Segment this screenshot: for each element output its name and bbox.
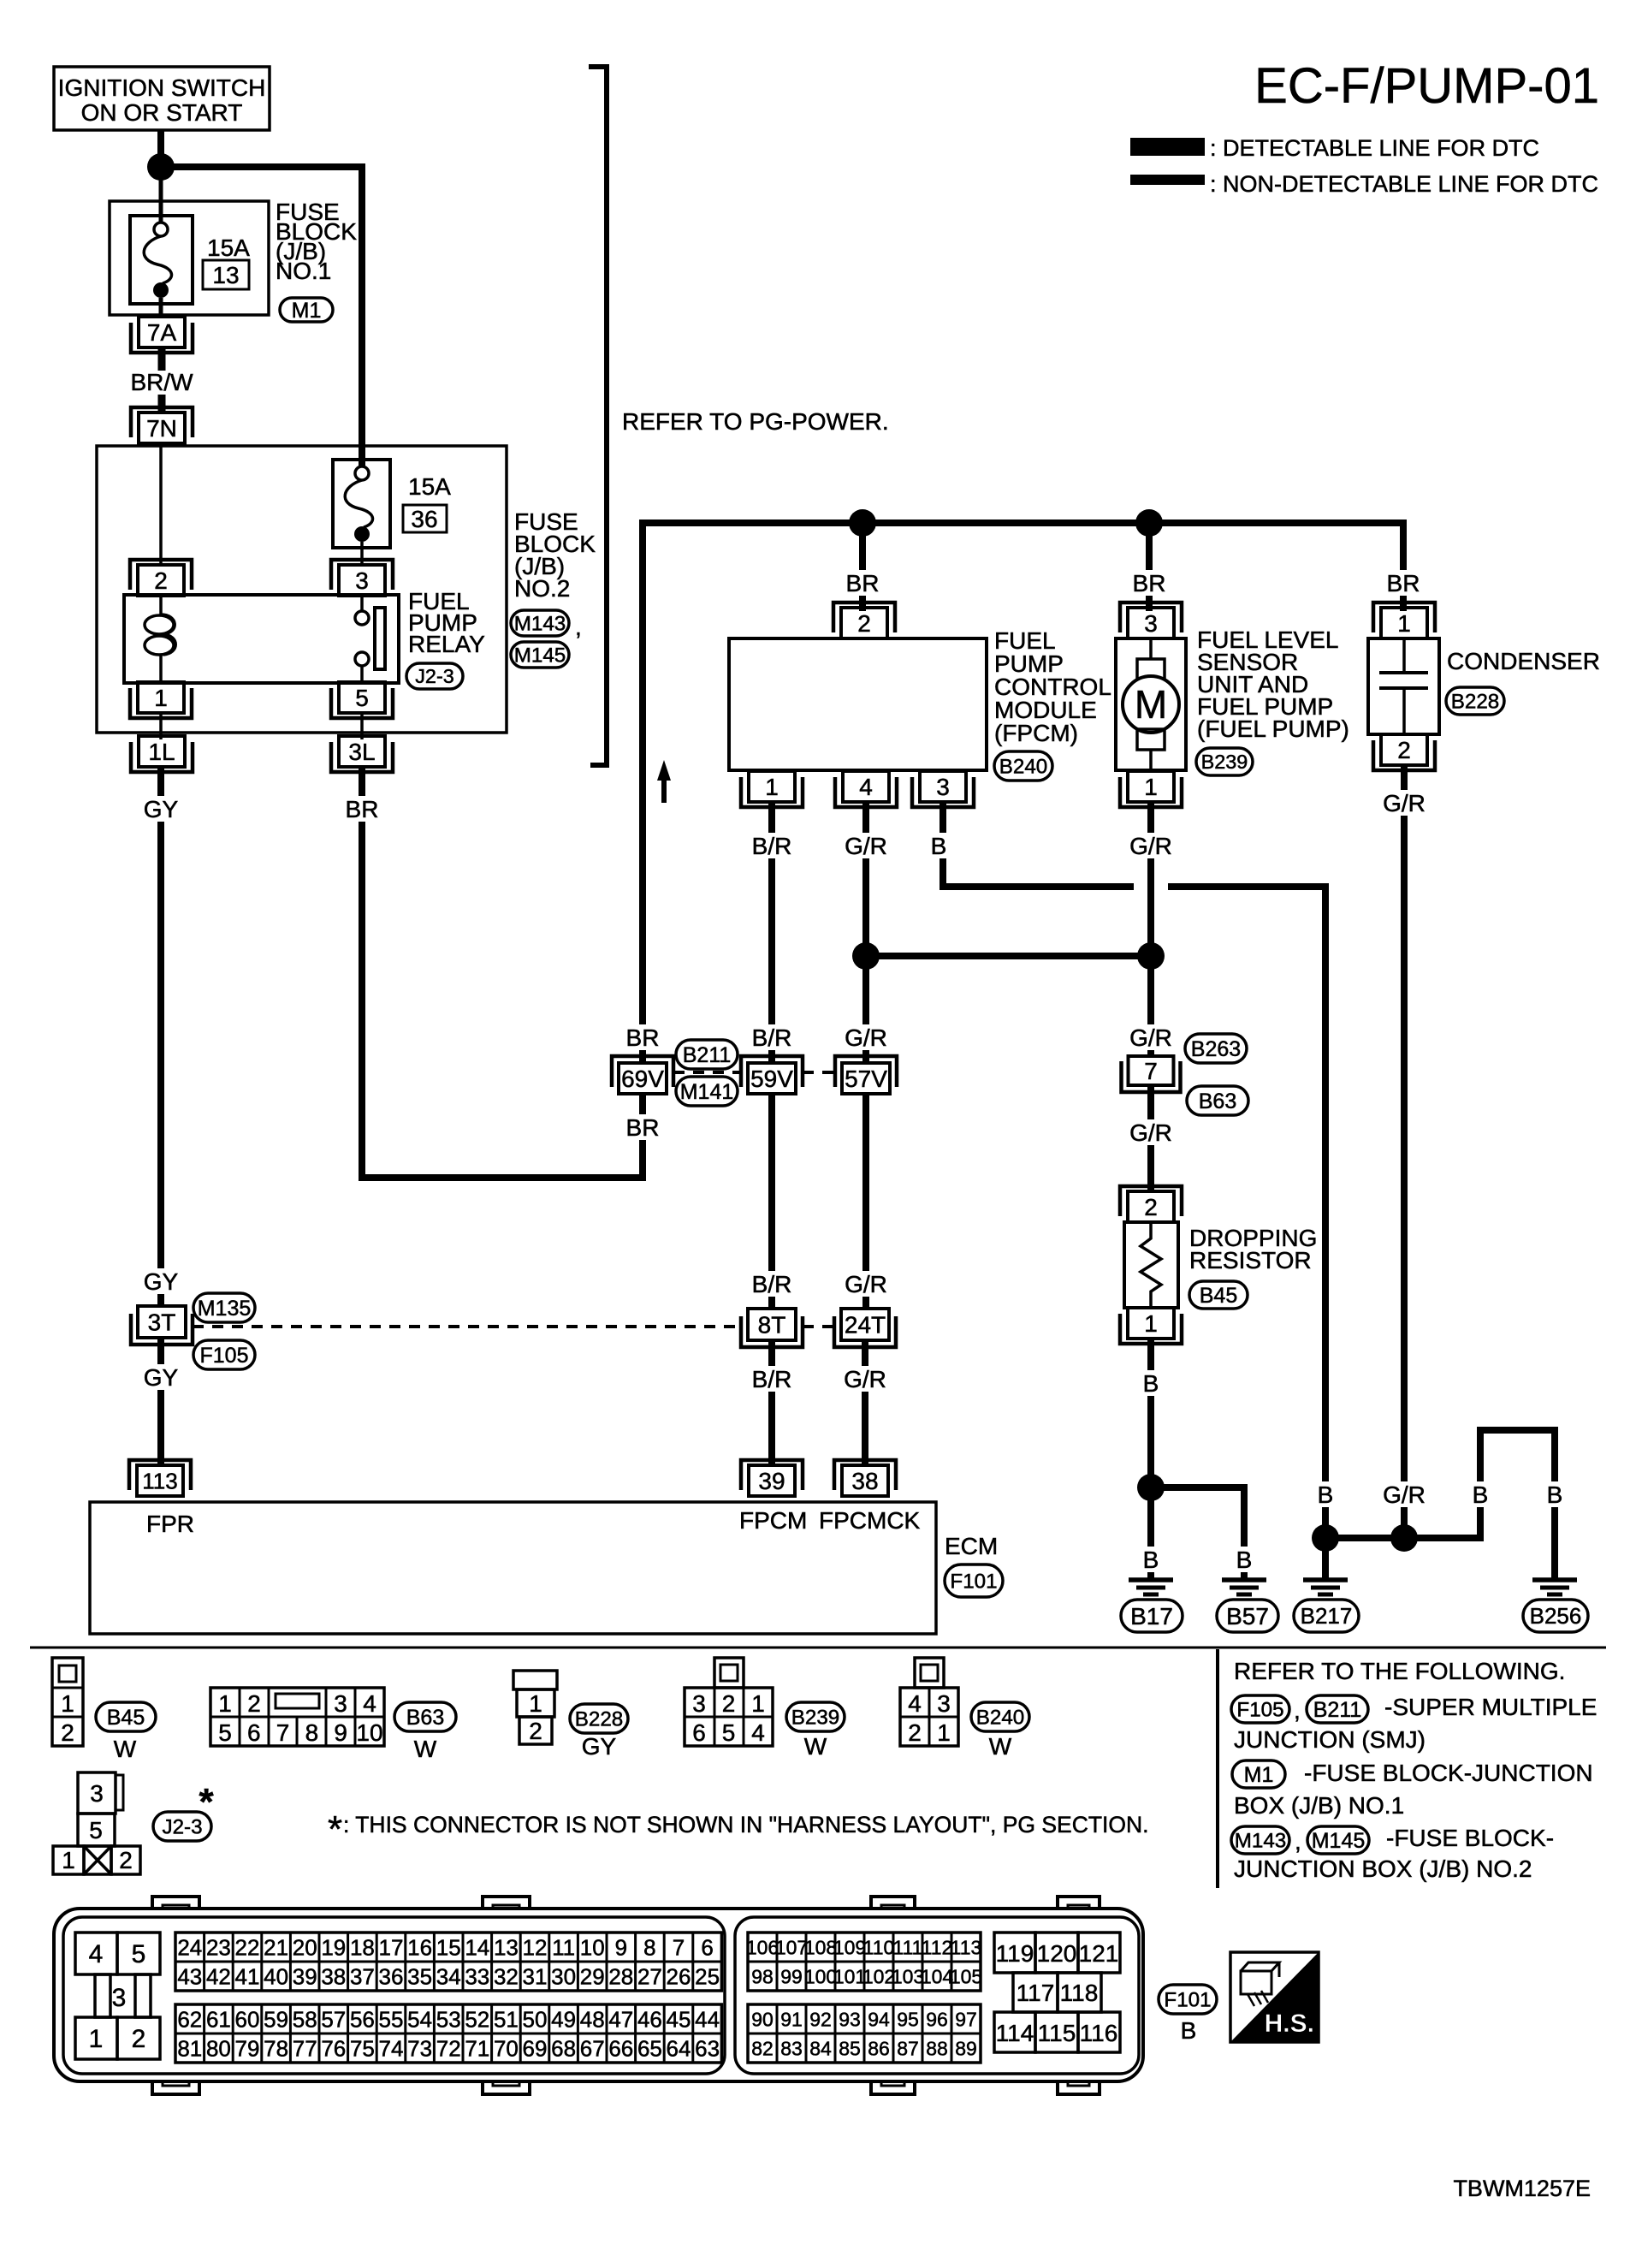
connector oval B45 resistor [1189,1281,1248,1309]
svg-text:30: 30 [551,1963,576,1989]
connector oval J2-3 [406,663,463,689]
svg-text:B256: B256 [1530,1603,1582,1629]
svg-text:26: 26 [667,1963,691,1989]
FPCM pin 4 [843,771,889,802]
dashed link 3T-8T [193,1325,741,1328]
svg-text:57: 57 [321,2006,346,2032]
svg-text:2: 2 [154,567,168,594]
svg-text:M143: M143 [514,612,566,635]
connector B63 pinout [210,1688,384,1746]
svg-text:BR/W: BR/W [130,369,193,395]
svg-text:121: 121 [1079,1940,1119,1967]
svg-text:61: 61 [206,2006,231,2032]
svg-text:B263: B263 [1191,1037,1241,1061]
svg-text:B211: B211 [1313,1698,1362,1722]
svg-text:109: 109 [833,1936,866,1958]
svg-text:80: 80 [206,2035,231,2061]
ECM grid right upper rows 106-113 and 98-105 [746,1933,982,1991]
svg-text:B: B [1143,1547,1159,1573]
svg-text:2: 2 [857,610,871,637]
svg-text:23: 23 [206,1934,231,1960]
connector 3L [339,736,385,767]
wire 7N to relay pin 2 [159,443,163,567]
svg-text:M143: M143 [1235,1829,1287,1852]
svg-text:98: 98 [751,1965,774,1987]
svg-text:113: 113 [951,1936,982,1958]
svg-text:21: 21 [264,1934,288,1960]
svg-text:1: 1 [529,1690,542,1717]
svg-text:95: 95 [897,2008,919,2030]
svg-text:2: 2 [247,1690,261,1717]
svg-text:6: 6 [701,1934,713,1960]
wire G/R 24T to ECM pin 38 [862,1340,868,1467]
svg-text:5: 5 [722,1719,736,1746]
svg-text:72: 72 [436,2035,461,2061]
connector B45 pinout [52,1658,83,1746]
ECM grid left upper rows 24-6 and 43-25 [175,1933,721,1991]
svg-text:115: 115 [1038,2020,1076,2046]
connector 7 [1129,1056,1174,1085]
svg-text:40: 40 [264,1963,288,1989]
dropping resistor body [1124,1222,1178,1308]
svg-text:116: 116 [1080,2020,1118,2046]
svg-text:(FPCM): (FPCM) [994,720,1078,746]
svg-text:7N: 7N [146,415,177,442]
section separator line [30,1647,1606,1649]
svg-text:33: 33 [465,1963,489,1989]
ECM pin 113 [137,1465,183,1496]
connector B239 pinout [685,1658,773,1746]
svg-text:45: 45 [667,2006,691,2032]
svg-text:RELAY: RELAY [408,631,485,657]
svg-text:FPCMCK: FPCMCK [819,1507,921,1534]
svg-text:BR: BR [846,570,880,597]
wire ignition switch to junction [157,130,164,163]
svg-text:104: 104 [921,1965,954,1987]
svg-text:W: W [804,1733,827,1760]
svg-text:(FUEL PUMP): (FUEL PUMP) [1197,715,1349,742]
svg-text:82: 82 [751,2037,774,2059]
fuel pump pin 3 [1128,608,1174,638]
label DROPPING RESISTOR [1189,1225,1317,1274]
svg-text:27: 27 [637,1963,662,1989]
svg-text:M145: M145 [514,644,566,667]
ECM pin 38 [842,1465,888,1496]
dashed link 69V-59V [673,1071,741,1074]
wire GY from 1L to ECM pin 113 [157,767,164,1306]
connector oval B240 pinout [971,1702,1029,1731]
svg-text:15: 15 [436,1934,461,1960]
svg-text:BR: BR [626,1114,660,1141]
svg-text:46: 46 [637,2006,662,2032]
svg-text:B57: B57 [1226,1603,1269,1630]
wire label GY above 3T [140,1268,181,1294]
connector oval M143 [511,610,569,636]
svg-text:REFER TO PG-POWER.: REFER TO PG-POWER. [622,408,889,435]
FPCM pin 3 [920,771,966,802]
svg-text:ON OR START: ON OR START [81,99,243,126]
svg-text:74: 74 [379,2035,404,2061]
ECM key cells 4 5 3 1 2 [75,1933,160,2059]
svg-text:5: 5 [132,1940,146,1968]
svg-text:3: 3 [90,1780,104,1807]
svg-text:58: 58 [293,2006,317,2032]
svg-text:86: 86 [868,2037,890,2059]
svg-text:20: 20 [293,1934,317,1960]
svg-text:BR: BR [626,1024,660,1051]
wire bus to fuel pump pin 3 [1146,523,1153,611]
svg-text:97: 97 [955,2008,977,2030]
svg-text:H.S.: H.S. [1265,2010,1314,2038]
svg-text:2: 2 [1397,737,1411,763]
connector oval F105 smj [193,1340,255,1369]
svg-text:*: * [328,1808,342,1850]
svg-text:B228: B228 [575,1707,624,1731]
wire bus to FPCM pin 2 [859,523,866,611]
fuel pump control module box [729,638,987,770]
ground B217 [1303,1577,1348,1582]
svg-text:38: 38 [321,1963,346,1989]
wire G/R fuel pump pin1 to connector 7 [1147,802,1154,1056]
svg-text:B63: B63 [1199,1089,1236,1113]
svg-text:1: 1 [751,1690,765,1717]
svg-text:120: 120 [1037,1940,1077,1967]
svg-text:BR: BR [1133,570,1166,597]
svg-text:NO.1: NO.1 [276,258,331,284]
wire junction to fuse block no.1 [159,174,163,223]
wire relay pin1 to 1L [159,713,163,739]
wire label BR above 69V [623,1024,663,1050]
svg-text:B: B [1236,1547,1253,1573]
svg-text:B/R: B/R [752,1024,792,1051]
svg-text:-FUSE BLOCK-JUNCTION: -FUSE BLOCK-JUNCTION [1304,1760,1593,1786]
wire label GY below 3T [140,1364,181,1390]
svg-text:G/R: G/R [1129,1024,1172,1051]
dropping resistor pin 1 [1128,1308,1174,1339]
dashed link 8T-24T [803,1325,834,1328]
svg-text:3: 3 [937,1690,951,1717]
svg-text:3: 3 [1144,610,1158,637]
svg-text:91: 91 [780,2008,803,2030]
ECM housing bottom tabs [152,2080,1100,2094]
svg-text:47: 47 [608,2006,633,2032]
svg-text:3: 3 [692,1690,706,1717]
svg-text:M135: M135 [198,1297,252,1321]
connector oval B63 inline [1187,1086,1248,1115]
svg-text:3: 3 [936,774,950,800]
svg-text:4: 4 [89,1940,104,1968]
svg-text:GY: GY [144,796,179,822]
svg-text:96: 96 [926,2008,948,2030]
svg-text:7: 7 [1144,1058,1158,1084]
wire G/R FPCM pin4 to 57V [862,802,869,1063]
svg-text:4: 4 [908,1690,922,1717]
svg-text:B/R: B/R [752,833,792,859]
relay switch contact [355,596,385,682]
svg-text:106: 106 [746,1936,779,1958]
svg-text:4: 4 [363,1690,376,1717]
connector oval J2-3 pinout [153,1812,211,1841]
connector 24T [841,1309,889,1340]
svg-text:16: 16 [407,1934,432,1960]
connector 57V [842,1063,890,1094]
svg-text:6: 6 [247,1719,261,1746]
connector oval M135 [193,1293,255,1322]
svg-text:G/R: G/R [1383,1481,1426,1508]
svg-text:G/R: G/R [1129,1119,1172,1146]
svg-text:114: 114 [996,2020,1034,2046]
svg-text:B240: B240 [999,755,1048,778]
svg-text:W: W [114,1736,137,1762]
wire B/R 59V to 8T [768,1093,775,1309]
legend non-detectable line (thin bar) [1130,175,1205,185]
wire fuse 36 to relay pin 3 [360,542,364,567]
svg-text:29: 29 [580,1963,605,1989]
label FUEL PUMP RELAY [408,588,485,657]
connector 69V [619,1063,667,1094]
svg-text:B228: B228 [1451,690,1500,713]
svg-text:F105: F105 [200,1344,249,1368]
connector oval M141 [676,1077,738,1106]
svg-text:28: 28 [608,1963,633,1989]
wire B FPCM pin3 right to B217 branch [943,802,1134,887]
node junction B at B17 [1137,1474,1165,1501]
svg-text:F101: F101 [1164,1988,1211,2011]
svg-text:54: 54 [407,2006,432,2032]
svg-text:G/R: G/R [1383,790,1426,816]
svg-text:17: 17 [379,1934,404,1960]
svg-text:GY: GY [582,1733,617,1760]
svg-text:77: 77 [293,2035,317,2061]
svg-text:7: 7 [673,1934,685,1960]
svg-text:113: 113 [142,1468,177,1493]
refer bracket line [589,67,607,765]
connector oval M1 [280,298,333,322]
svg-text:,: , [575,614,582,640]
wire G/R condenser pin2 down to ground junction [1401,765,1408,1538]
wire B217 junction to ground [1322,1538,1329,1580]
connector oval B240 [994,751,1052,781]
connector oval F101 bottom [1159,1985,1217,2014]
fuse 36 15A symbol [333,460,390,548]
svg-text:100: 100 [804,1965,837,1987]
svg-text:1: 1 [937,1719,951,1746]
wire B/R 8T to ECM pin 39 [768,1340,775,1467]
svg-text:8: 8 [643,1934,655,1960]
svg-text:50: 50 [523,2006,548,2032]
svg-text:1: 1 [765,774,779,800]
svg-text:111: 111 [893,1936,923,1958]
svg-text:15A: 15A [408,473,451,500]
svg-text:73: 73 [407,2035,432,2061]
wire B dropping resistor to B17 junction [1147,1339,1154,1487]
svg-text:75: 75 [350,2035,375,2061]
svg-text:3L: 3L [348,739,375,765]
svg-text:G/R: G/R [845,1271,887,1297]
ECM box [90,1502,936,1634]
ECM grid right lower rows 90-97 and 82-89 [748,2004,981,2063]
svg-text:B: B [1473,1481,1489,1508]
svg-text:31: 31 [523,1963,548,1989]
svg-text:M141: M141 [680,1080,734,1104]
connector 7N [139,413,185,443]
relay pin 1 [138,682,184,713]
ignition switch box [54,67,270,130]
FPCM pin 1 [749,771,795,802]
svg-text:60: 60 [235,2006,260,2032]
svg-text:13: 13 [494,1934,519,1960]
label FUSE BLOCK (J/B) NO.1 [276,199,357,284]
svg-text:93: 93 [839,2008,861,2030]
svg-text:18: 18 [350,1934,375,1960]
connector oval M1 refer [1232,1760,1285,1788]
svg-text:108: 108 [804,1936,837,1958]
svg-text:B240: B240 [976,1706,1025,1729]
svg-text:4: 4 [859,774,873,800]
label FUEL LEVEL SENSOR UNIT AND FUEL PUMP (FUEL PUMP) [1197,626,1349,742]
node bus junction at FPCM [849,509,876,537]
svg-text:M: M [1135,682,1167,727]
label FUSE BLOCK (J/B) NO.2 [514,508,596,602]
svg-text:5: 5 [218,1719,232,1746]
connector oval B239 [1196,748,1253,775]
relay pin 2 [138,565,184,596]
svg-text:2: 2 [1144,1194,1158,1220]
relay pin 5 [339,682,385,713]
svg-text:1: 1 [89,2025,104,2053]
svg-text:G/R: G/R [1129,833,1172,859]
wire junction link G/R [866,953,1151,959]
svg-text:B/R: B/R [752,1366,792,1392]
svg-text:GY: GY [144,1364,179,1391]
svg-text:10: 10 [356,1719,382,1746]
connector oval B45 pinout [96,1702,156,1731]
ECM connector housing left inner [63,1917,725,2074]
svg-text:IGNITION SWITCH: IGNITION SWITCH [58,74,266,101]
dashed link 59V-57V [803,1071,835,1074]
svg-text:81: 81 [177,2035,202,2061]
node junction B at B217 [1312,1524,1339,1552]
connector oval B228 [1446,687,1504,715]
svg-text:7A: 7A [147,319,177,346]
connector 59V [748,1063,796,1094]
svg-text:34: 34 [436,1963,461,1989]
svg-text:M1: M1 [1244,1763,1274,1787]
svg-text:9: 9 [615,1934,627,1960]
svg-text:8: 8 [305,1719,319,1746]
svg-text:: THIS CONNECTOR IS NOT SHOWN: : THIS CONNECTOR IS NOT SHOWN IN "HARNES… [343,1812,1149,1838]
svg-text:4: 4 [751,1719,765,1746]
wire fuse 13 to connector 7A [159,298,163,318]
svg-text:55: 55 [379,2006,404,2032]
svg-text:M145: M145 [1312,1829,1366,1853]
connector oval B63 pinout [394,1702,456,1731]
svg-text:36: 36 [411,506,437,532]
svg-text:37: 37 [350,1963,375,1989]
svg-text:J2-3: J2-3 [415,665,454,687]
svg-text:13: 13 [212,262,239,288]
wire B/R FPCM pin1 to 59V [768,802,775,1063]
svg-text:117: 117 [1017,1980,1055,2006]
svg-text:119: 119 [996,1940,1034,1967]
svg-text:2: 2 [119,1847,133,1873]
connector 1L [139,736,185,767]
svg-text:67: 67 [580,2035,605,2061]
svg-text:42: 42 [206,1963,231,1989]
fuse 13 15A symbol [130,216,193,304]
wire junction to fuse 36 (thick feeder) [168,167,362,467]
svg-text:1L: 1L [148,739,175,765]
connector oval B211 [676,1040,738,1069]
svg-text:10: 10 [580,1934,605,1960]
svg-text:24: 24 [177,1934,202,1960]
svg-text:B45: B45 [107,1706,145,1730]
svg-text:EC-F/PUMP-01: EC-F/PUMP-01 [1254,58,1599,114]
svg-text:43: 43 [177,1963,202,1989]
connector oval F105 refer [1231,1695,1289,1723]
svg-text:RESISTOR: RESISTOR [1189,1247,1312,1274]
ECM pin 39 [749,1465,795,1496]
svg-text:59: 59 [264,2006,288,2032]
svg-text:-FUSE BLOCK-: -FUSE BLOCK- [1386,1825,1554,1851]
svg-text:39: 39 [293,1963,317,1989]
svg-text:71: 71 [465,2035,489,2061]
svg-text:2: 2 [529,1718,542,1744]
svg-text:56: 56 [350,2006,375,2032]
svg-text:19: 19 [321,1934,346,1960]
svg-text:41: 41 [235,1963,260,1989]
svg-text:59V: 59V [750,1066,793,1092]
svg-text:110: 110 [863,1936,895,1958]
ECM connector housing outer [54,1909,1143,2081]
svg-text:B239: B239 [1201,751,1248,773]
svg-text:65: 65 [637,2035,662,2061]
svg-text:57V: 57V [845,1066,887,1092]
fuse block J/B no.2 box [97,446,507,733]
svg-text:B: B [1181,2017,1197,2044]
connector 7A [139,317,185,347]
svg-text:7: 7 [276,1719,290,1746]
svg-text:B17: B17 [1130,1603,1173,1630]
condenser pin 2 [1381,734,1427,765]
wire label BR below 69V [623,1114,663,1140]
svg-text:49: 49 [551,2006,576,2032]
svg-text:12: 12 [523,1934,548,1960]
svg-text:: NON-DETECTABLE LINE FOR DTC: : NON-DETECTABLE LINE FOR DTC [1210,171,1598,197]
svg-text:BR: BR [1387,570,1420,597]
svg-text:15A: 15A [207,235,250,261]
wire label B above B217 ground [1314,1481,1337,1507]
svg-text:90: 90 [751,2008,774,2030]
wire BR bus from 69V up and across to condenser [639,523,646,1063]
svg-text:2: 2 [722,1690,736,1717]
svg-text:48: 48 [580,2006,605,2032]
svg-text:JUNCTION BOX (J/B) NO.2: JUNCTION BOX (J/B) NO.2 [1234,1855,1532,1882]
svg-text:J2-3: J2-3 [162,1815,202,1838]
svg-text:63: 63 [695,2035,720,2061]
svg-text:36: 36 [379,1963,404,1989]
wire junctions to B256 ground [1325,1430,1555,1580]
HS hot at all times logo [1230,1952,1319,2042]
connector 8T [748,1309,796,1340]
svg-text:78: 78 [264,2035,288,2061]
svg-text:24T: 24T [845,1312,886,1339]
svg-text:118: 118 [1060,1980,1099,2006]
svg-text:TBWM1257E: TBWM1257E [1453,2176,1591,2201]
svg-text:B/R: B/R [752,1271,792,1297]
arrow up marker [657,760,671,781]
svg-text:CONDENSER: CONDENSER [1447,648,1600,674]
